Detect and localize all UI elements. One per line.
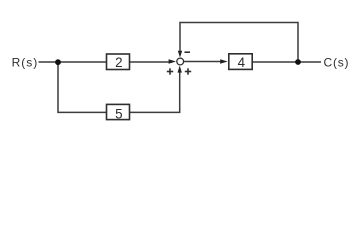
svg-text:C(s): C(s) — [324, 55, 350, 69]
svg-text:2: 2 — [115, 55, 122, 70]
svg-text:R(s): R(s) — [12, 55, 39, 69]
svg-text:5: 5 — [115, 107, 122, 122]
svg-text:4: 4 — [238, 55, 246, 70]
